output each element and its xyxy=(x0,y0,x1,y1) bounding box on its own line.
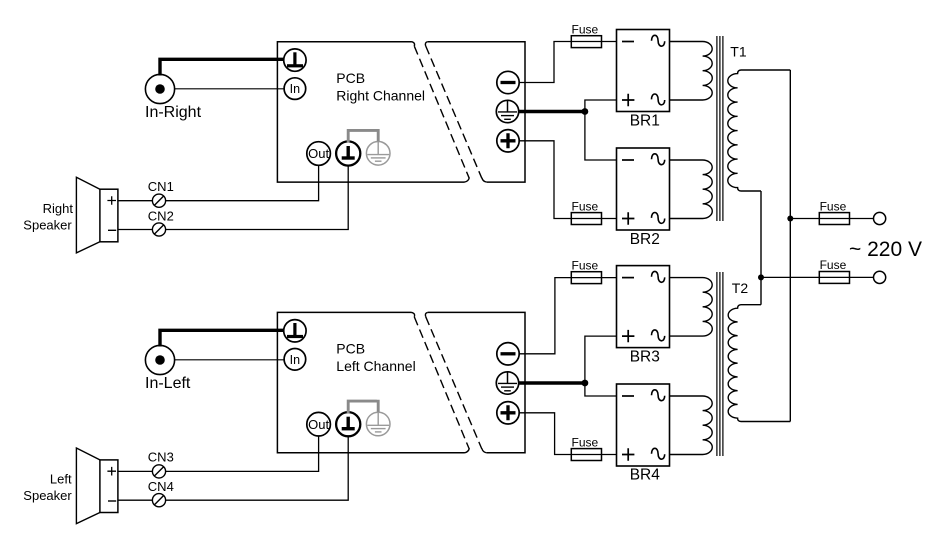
wire earth to junction (thick, left ch) xyxy=(518,381,585,384)
svg-text:Fuse: Fuse xyxy=(820,199,847,213)
label PCB Right Channel xyxy=(336,70,425,103)
wire BR3 plus to BR4 minus xyxy=(585,336,617,396)
svg-text:Fuse: Fuse xyxy=(572,435,599,449)
bridge rectifier BR4 xyxy=(617,384,670,466)
SECTION: right channel top-left xyxy=(23,42,525,253)
terminal In xyxy=(284,78,306,100)
SECTION: left channel power xyxy=(496,259,790,484)
wire earth to junction (thick) xyxy=(518,110,585,113)
svg-text:~ 220 V: ~ 220 V xyxy=(849,238,922,261)
transformer T1 secondary winding lower xyxy=(670,160,713,219)
wire BR1 plus to BR2 minus xyxy=(585,100,617,160)
svg-text:Speaker: Speaker xyxy=(23,218,72,233)
wire RCA signal to In xyxy=(175,88,285,90)
PCB Right Channel box (left piece) xyxy=(277,42,469,182)
transformer T2 primary winding xyxy=(728,305,790,422)
svg-text:BR1: BR1 xyxy=(630,112,660,129)
wire junction A to fuse to mains terminal xyxy=(790,218,873,220)
svg-text:CN1: CN1 xyxy=(148,179,174,194)
wire mains bus B (T1 primary bottom to T2 primary top) xyxy=(760,191,762,305)
svg-text:T1: T1 xyxy=(730,43,747,59)
node junction earth/BR1+/BR2- xyxy=(582,108,589,115)
fuse F2 xyxy=(571,199,601,224)
node junction mains B xyxy=(758,274,764,280)
svg-text:In-Right: In-Right xyxy=(145,104,202,121)
wire chassis ground to CN2 xyxy=(118,166,349,230)
wire RCA signal to In xyxy=(175,359,285,361)
svg-text:BR2: BR2 xyxy=(630,231,660,248)
terminal Out (left ch) xyxy=(307,412,331,436)
mains terminal upper xyxy=(874,212,886,224)
svg-text:BR3: BR3 xyxy=(630,348,660,365)
svg-text:Right: Right xyxy=(43,201,74,216)
terminal earth (left ch) xyxy=(496,372,518,394)
svg-text:Fuse: Fuse xyxy=(820,258,847,272)
svg-text:CN3: CN3 xyxy=(148,450,174,465)
speaker Right xyxy=(76,177,118,253)
svg-text:PCB: PCB xyxy=(336,70,365,86)
wire RCA shield to PCB ground (thick) xyxy=(160,330,285,346)
svg-text:In-Left: In-Left xyxy=(145,375,191,392)
RCA jack In-Right xyxy=(145,74,174,103)
wire RCA shield to PCB ground (thick) xyxy=(160,59,285,75)
terminal In (left ch) xyxy=(284,349,306,371)
PCB Left Channel box (right piece) xyxy=(425,312,525,452)
wire minus to fuse to BR3 xyxy=(519,278,616,354)
mains terminal lower xyxy=(874,271,886,283)
wire minus to fuse to BR1 xyxy=(519,42,617,83)
terminal minus (left ch) xyxy=(497,343,519,365)
transformer T1 secondary winding upper xyxy=(670,42,713,101)
node junction mains A xyxy=(787,216,793,222)
terminal ground (top, left ch) xyxy=(284,320,306,342)
terminal plus (right ch) xyxy=(497,130,519,152)
label PCB Left Channel xyxy=(336,341,415,374)
svg-text:Left: Left xyxy=(50,471,72,486)
bridge rectifier BR1 xyxy=(617,30,670,112)
svg-text:Left Channel: Left Channel xyxy=(336,358,415,374)
connector CN2 xyxy=(148,208,174,236)
terminal minus (right ch) xyxy=(497,71,519,93)
terminal earth (gray) xyxy=(366,142,390,166)
wire Out to CN1 xyxy=(118,165,319,200)
node junction earth/BR3+/BR4- xyxy=(582,380,589,387)
speaker Left xyxy=(76,448,118,524)
svg-text:Fuse: Fuse xyxy=(572,23,599,37)
bridge rectifier BR3 xyxy=(617,266,670,348)
svg-text:Out: Out xyxy=(308,146,329,161)
wire chassis-to-earth jumper (gray, left ch) xyxy=(348,400,378,414)
RCA jack In-Left xyxy=(145,345,174,374)
svg-text:In: In xyxy=(290,82,300,96)
wire chassis ground to CN4 xyxy=(118,436,349,500)
svg-text:Right Channel: Right Channel xyxy=(336,87,425,103)
svg-text:CN4: CN4 xyxy=(148,479,174,494)
wire mains bus A (T1 primary top to T2 primary bottom) xyxy=(789,70,791,422)
bridge rectifier BR2 xyxy=(617,148,670,230)
terminal chassis ground (bold, left ch) xyxy=(336,412,360,436)
transformer T1 primary winding xyxy=(728,70,791,191)
transformer T2 core xyxy=(717,272,723,456)
wire Out to CN3 xyxy=(118,436,319,471)
wire plus to fuse to BR4 xyxy=(519,413,616,455)
terminal Out xyxy=(307,142,331,166)
connector CN4 xyxy=(148,479,174,507)
fuse F4 xyxy=(571,435,601,460)
terminal plus (left ch) xyxy=(497,402,519,424)
wire plus to fuse to BR2 xyxy=(519,141,617,219)
svg-text:Fuse: Fuse xyxy=(572,259,599,273)
wire chassis-to-earth jumper (gray) xyxy=(348,129,378,143)
svg-text:Out: Out xyxy=(308,417,329,432)
fuse F5 (mains upper) xyxy=(819,199,849,224)
terminal earth (right ch) xyxy=(496,100,518,122)
svg-text:In: In xyxy=(290,353,300,367)
fuse F1 xyxy=(571,23,601,48)
connector CN1 xyxy=(148,179,174,207)
terminal chassis ground (bold) xyxy=(336,141,360,165)
connector CN3 xyxy=(148,450,174,478)
svg-text:PCB: PCB xyxy=(336,341,365,357)
fuse F6 (mains lower) xyxy=(819,258,849,283)
SECTION: left channel bottom-left xyxy=(23,312,525,523)
terminal ground (top, circle with earth bar symbol) xyxy=(284,49,306,71)
svg-text:Speaker: Speaker xyxy=(23,488,72,503)
transformer T1 core xyxy=(717,36,723,221)
svg-text:CN2: CN2 xyxy=(148,208,174,223)
PCB Left Channel box (left piece) xyxy=(277,312,469,452)
terminal earth (gray, left ch) xyxy=(366,412,390,436)
SECTION: right channel power xyxy=(496,23,922,422)
svg-text:T2: T2 xyxy=(732,280,749,296)
label Right Speaker xyxy=(23,201,73,233)
wire junction B to fuse to mains terminal xyxy=(761,276,874,278)
transformer T2 secondary winding upper xyxy=(670,278,713,337)
svg-text:BR4: BR4 xyxy=(630,466,661,483)
fuse F3 xyxy=(571,259,601,284)
transformer T2 secondary winding lower xyxy=(670,396,713,455)
label Left Speaker xyxy=(23,471,72,503)
PCB Right Channel box (right piece) xyxy=(425,42,525,182)
svg-text:Fuse: Fuse xyxy=(572,199,599,213)
